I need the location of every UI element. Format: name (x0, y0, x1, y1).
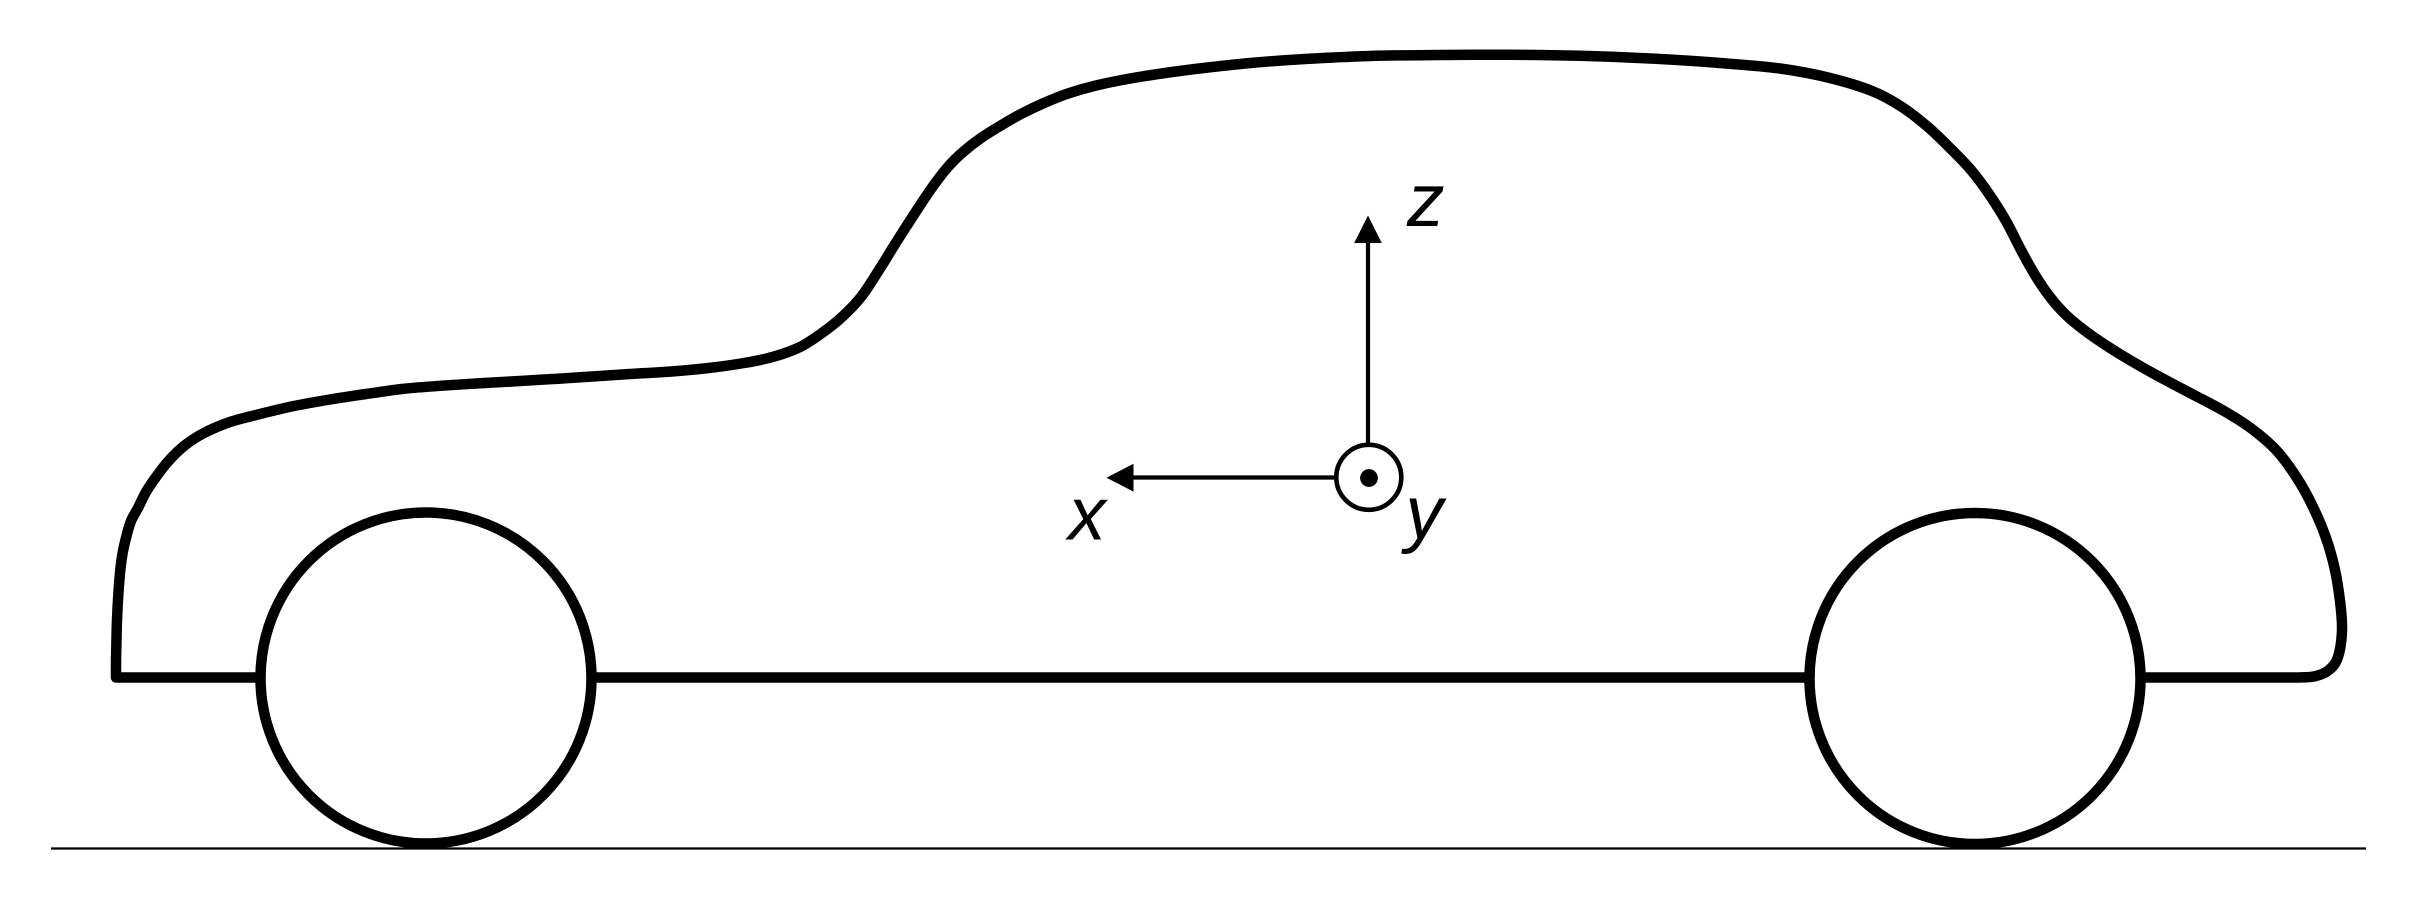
origin dot (1360, 469, 1378, 487)
origin circle (y-axis out of page) (1336, 445, 1401, 510)
front wheel (261, 513, 592, 844)
x-axis arrowhead (1107, 464, 1134, 492)
z-axis shaft (1366, 240, 1370, 445)
svg-text:z: z (1406, 158, 1445, 242)
rear wheel (1810, 513, 2141, 844)
x-axis shaft (1131, 475, 1337, 479)
z-axis arrowhead (1354, 216, 1382, 244)
svg-text:y: y (1400, 471, 1447, 555)
ground line (51, 847, 2366, 849)
svg-text:x: x (1065, 472, 1108, 556)
car body outline (116, 55, 2342, 678)
